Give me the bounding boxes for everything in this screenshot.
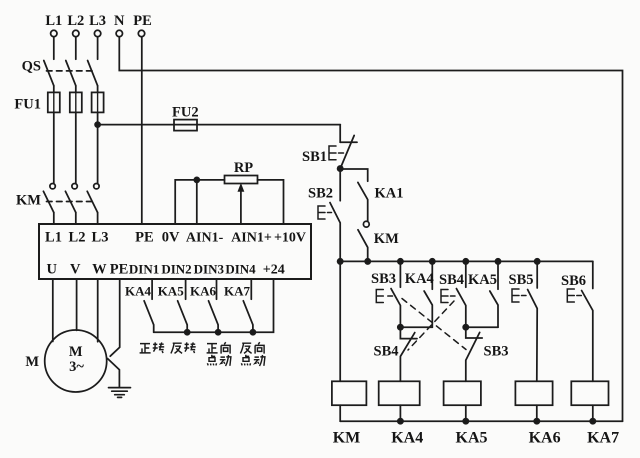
svg-text:3~: 3~	[69, 359, 84, 375]
svg-text:FU2: FU2	[172, 105, 199, 121]
svg-text:DIN2: DIN2	[161, 262, 191, 277]
coil KA5	[444, 381, 481, 405]
label zhengxiang (fwd jog)	[207, 342, 231, 366]
motor M 3~	[45, 330, 107, 392]
wire W to motor	[97, 279, 99, 342]
mechanical link SB4 dashed	[408, 301, 454, 350]
pushbutton SB5 (forward jog)	[512, 261, 537, 381]
wire L3 to QS	[97, 37, 99, 60]
wire to KA1 branch	[340, 169, 368, 181]
svg-text:L2: L2	[67, 13, 84, 29]
disconnect switch QS pole 1	[44, 61, 54, 86]
svg-text:SB5: SB5	[509, 272, 534, 288]
svg-text:W: W	[92, 262, 107, 278]
relay contact KA4 seal-in	[424, 261, 432, 327]
svg-text:PE: PE	[133, 13, 152, 29]
svg-text:SB3: SB3	[484, 344, 509, 360]
terminal L3	[94, 30, 100, 36]
contactor KM main pole 3	[87, 184, 99, 213]
svg-text:KA1: KA1	[375, 186, 404, 202]
wire DIN common bus to +24	[154, 279, 274, 332]
relay contact KA5 (DIN2)	[178, 279, 188, 332]
svg-text:FU1: FU1	[14, 97, 41, 113]
QS linkage dashed	[47, 70, 94, 72]
wire V to motor	[76, 279, 78, 330]
svg-text:M: M	[25, 354, 39, 370]
node neutral KA5	[463, 419, 468, 424]
svg-text:V: V	[70, 262, 81, 278]
wire U to motor	[52, 279, 54, 342]
svg-text:AIN1-: AIN1-	[186, 231, 224, 246]
fuse FU1 pole 3	[92, 92, 104, 112]
pushbutton SB1 (NC stop)	[329, 125, 357, 169]
pushbutton SB3 (forward start)	[376, 261, 400, 327]
terminal L2	[73, 30, 79, 36]
svg-text:KA4: KA4	[125, 284, 152, 299]
contactor KM main pole 1	[43, 184, 55, 213]
svg-text:KM: KM	[374, 231, 399, 247]
svg-text:KA5: KA5	[468, 272, 497, 288]
svg-text:L1: L1	[45, 13, 62, 29]
node neutral KA7	[590, 419, 595, 424]
wire coils to neutral bus	[340, 405, 593, 421]
node din bus j3	[250, 330, 255, 335]
control bus	[340, 260, 593, 262]
node din bus j1	[185, 330, 190, 335]
svg-text:SB3: SB3	[371, 271, 396, 287]
wire RP to +10V	[258, 180, 284, 224]
svg-text:AIN1+: AIN1+	[231, 231, 272, 246]
ground	[109, 388, 131, 398]
fuse FU1 pole 1	[48, 92, 60, 112]
relay contact KA5 seal-in	[490, 261, 498, 327]
wire tap to FU2 and SB1	[98, 124, 341, 126]
svg-text:DIN1: DIN1	[129, 262, 159, 277]
pushbutton SB3 NC interlock	[466, 327, 482, 381]
coil KM	[332, 381, 367, 405]
svg-text:L2: L2	[69, 230, 86, 246]
terminal N	[116, 30, 122, 36]
pushbutton SB6 (reverse jog)	[567, 261, 593, 381]
svg-text:+10V: +10V	[274, 231, 306, 246]
wire L2 to QS	[75, 37, 77, 60]
svg-text:KA4: KA4	[391, 430, 423, 447]
fuse FU1 pole 2	[70, 92, 82, 112]
node bus SB2	[338, 259, 343, 264]
coil KA4	[379, 381, 420, 405]
pushbutton SB2 (start)	[318, 169, 340, 262]
svg-text:KA6: KA6	[190, 284, 217, 299]
disconnect switch QS pole 2	[66, 61, 76, 86]
svg-text:+24: +24	[263, 263, 285, 278]
node SB1 out	[338, 166, 343, 171]
svg-text:M: M	[69, 344, 83, 360]
svg-text:QS: QS	[22, 59, 41, 75]
node neutral KA6	[534, 419, 539, 424]
node bus KA4	[430, 259, 435, 264]
svg-text:KA5: KA5	[456, 430, 488, 447]
KM linkage dashed	[47, 201, 94, 203]
pushbutton SB4 (reverse start)	[441, 261, 466, 327]
svg-text:SB4: SB4	[374, 344, 399, 360]
contactor KM main pole 2	[65, 184, 77, 213]
wire KM to inverter	[54, 213, 98, 225]
wire PE down to inverter	[141, 37, 143, 224]
potentiometer RP	[225, 176, 258, 184]
svg-text:L3: L3	[89, 13, 106, 29]
wire FU1 to KM	[54, 112, 98, 183]
node bus SB3	[398, 259, 403, 264]
wire QS to FU1	[54, 86, 98, 93]
wire PE to motor frame	[110, 279, 120, 356]
neutral bus bottom	[340, 420, 622, 422]
node bus SB5	[535, 259, 540, 264]
svg-text:RP: RP	[234, 160, 253, 176]
svg-text:PE: PE	[110, 262, 129, 278]
coil KA6	[515, 381, 552, 405]
wire L1 to QS	[53, 37, 55, 60]
label zhengzhuan (forward)	[140, 342, 165, 353]
svg-text:L3: L3	[92, 230, 109, 246]
svg-text:0V: 0V	[162, 230, 180, 246]
svg-text:KA7: KA7	[587, 430, 619, 447]
svg-text:PE: PE	[135, 230, 154, 246]
svg-text:SB6: SB6	[561, 273, 586, 289]
inverter box U1	[39, 224, 311, 279]
RP wiper arrow to AIN1+	[238, 184, 243, 224]
svg-text:KA6: KA6	[529, 430, 561, 447]
node bus SB4	[463, 259, 468, 264]
svg-text:KA4: KA4	[405, 271, 434, 287]
svg-text:KA5: KA5	[158, 284, 185, 299]
svg-text:SB2: SB2	[308, 186, 333, 202]
node AIN1- tap	[194, 177, 199, 182]
svg-text:SB4: SB4	[439, 272, 464, 288]
node neutral KA4	[398, 419, 403, 424]
node bus KM	[365, 259, 370, 264]
node din bus j2	[216, 330, 221, 335]
coil KA7	[571, 381, 608, 405]
relay contact KA1 (seal-in)	[358, 182, 368, 221]
svg-text:DIN3: DIN3	[194, 262, 225, 277]
mechanical link SB3 dashed	[402, 299, 466, 350]
node SB3/KA4 join	[398, 325, 433, 330]
label fanxiang (rev jog)	[240, 342, 265, 366]
svg-text:KA7: KA7	[224, 284, 251, 299]
svg-text:KM: KM	[16, 193, 41, 209]
svg-text:SB1: SB1	[302, 149, 327, 165]
svg-text:KM: KM	[333, 430, 361, 447]
pushbutton SB4 NC interlock	[400, 327, 417, 381]
node bus KA5	[495, 259, 500, 264]
relay contact KA6 (DIN3)	[209, 279, 219, 332]
label fanzhuan (reverse)	[171, 342, 196, 353]
terminal PE	[138, 30, 144, 36]
svg-text:DIN4: DIN4	[225, 262, 256, 277]
svg-text:U: U	[47, 262, 58, 278]
relay contact KA7 (DIN4)	[243, 279, 253, 332]
fuse FU2	[174, 120, 197, 131]
svg-text:L1: L1	[45, 230, 62, 246]
disconnect switch QS pole 3	[88, 61, 98, 86]
node SB4/KA5 join	[463, 325, 498, 330]
wire 0V loop	[175, 180, 224, 224]
terminal L1	[51, 30, 57, 36]
wire motor frame to earth	[108, 359, 120, 387]
wire bus corner to KM coil	[339, 261, 341, 381]
wire N rail	[119, 37, 622, 421]
relay contact KA4 (DIN1)	[144, 279, 154, 332]
wire AIN1-	[196, 180, 198, 224]
svg-text:N: N	[114, 13, 125, 29]
contactor contact KM aux	[358, 221, 369, 261]
node fuse tap	[95, 122, 100, 127]
